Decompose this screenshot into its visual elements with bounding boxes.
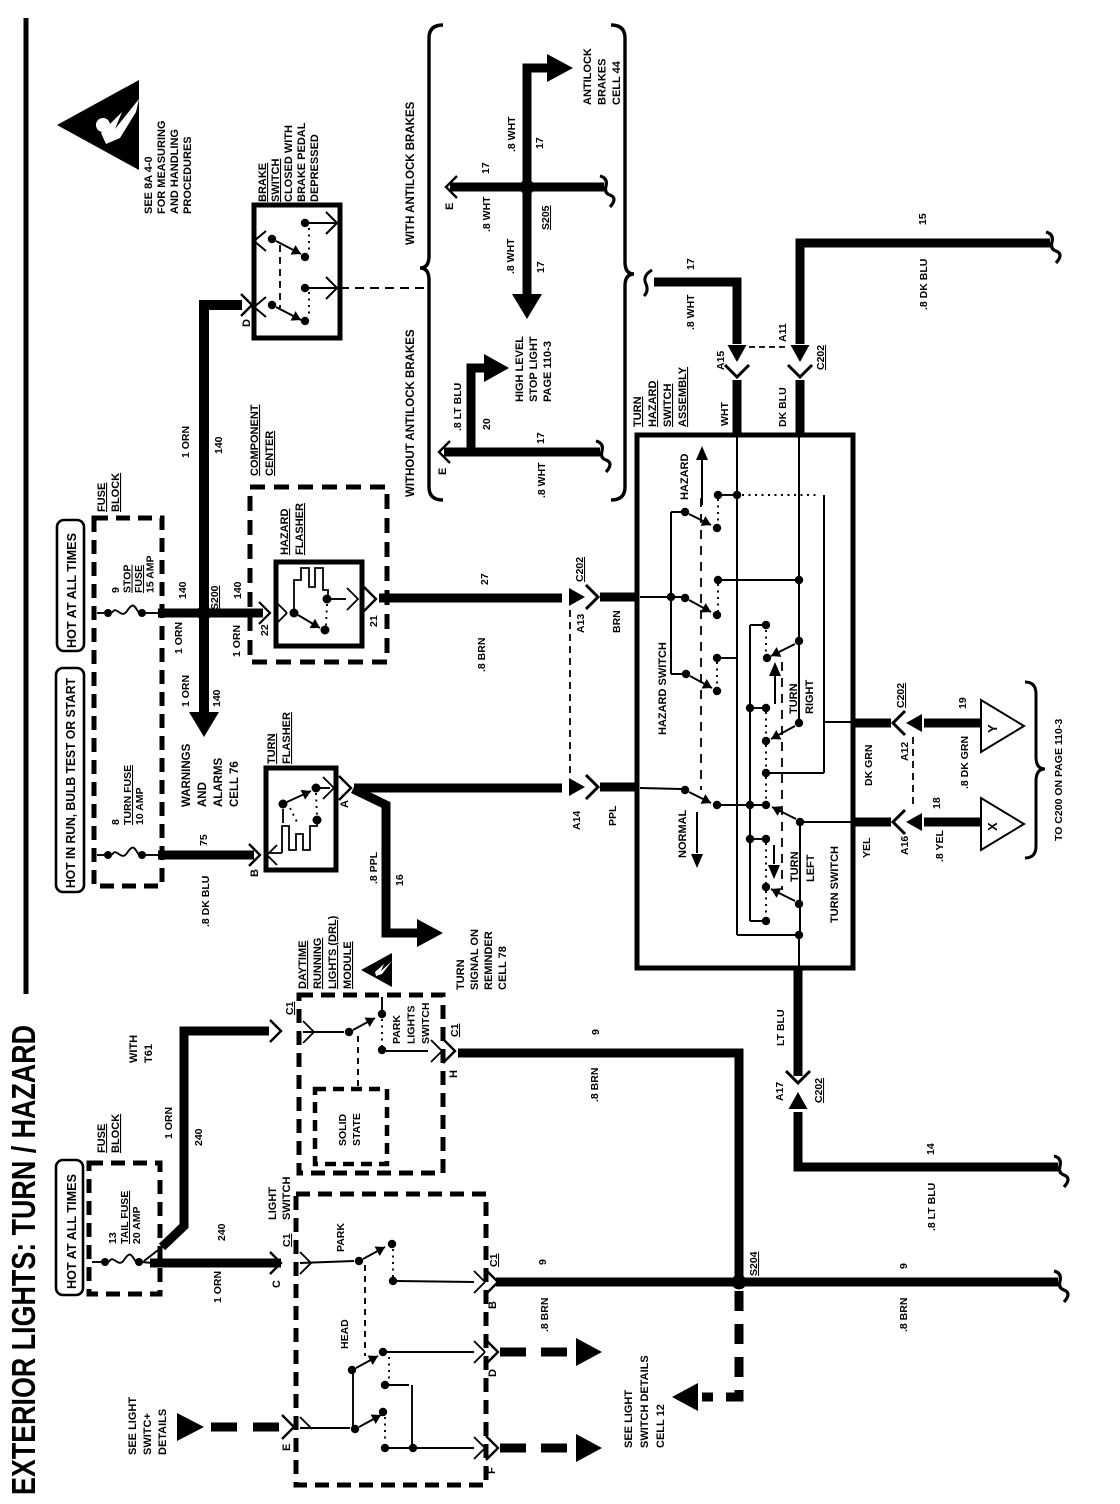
svg-text:.8 DK BLU: .8 DK BLU [200,876,212,927]
hazard feed line [742,494,820,496]
svg-text:TO C200 ON PAGE 110-3: TO C200 ON PAGE 110-3 [1053,719,1065,841]
brace right [611,25,634,500]
svg-text:.8 DK BLU: .8 DK BLU [918,259,930,310]
brace TO C200 [1025,682,1045,858]
svg-text:.8 BRN: .8 BRN [476,638,488,672]
svg-text:16: 16 [394,874,406,886]
svg-text:.8 LT BLU: .8 LT BLU [926,1183,938,1231]
WHT line inside [736,437,738,935]
svg-text:22: 22 [259,624,271,636]
blade DK BLU to 741 [795,719,803,727]
fuse block dashed box lower [89,1163,160,1294]
svg-text:S205: S205 [540,205,552,230]
turn contact column dots [762,621,770,629]
YEL stub [800,821,853,823]
svg-text:A: A [339,800,351,808]
pin B [474,1271,485,1282]
wire 1 ORN main [199,613,209,712]
connector C202 dashed A15-A11 [749,346,787,348]
svg-text:240: 240 [216,1223,228,1241]
wire 1 ORN 240 to light switch [142,1262,152,1263]
hazard switch bus [670,512,672,674]
svg-text:75: 75 [198,834,210,846]
svg-text:1 ORN: 1 ORN [163,1107,175,1139]
wire .8 WHT to antilock brakes [527,68,547,183]
svg-text:1 ORN: 1 ORN [231,625,243,657]
turn-right blade from DK BLU [795,637,803,645]
svg-text:B: B [249,869,261,877]
turn hazard switch assembly box [637,435,853,968]
triangle Y [981,700,1024,752]
svg-text:.8 PPL: .8 PPL [368,851,380,884]
SOLID STATE box [315,1089,387,1164]
pin E light switch [282,1415,294,1439]
svg-text:27: 27 [479,573,491,585]
DK BLU line inside [798,437,800,723]
wire .8 BRN 27 to A13 [379,594,562,603]
svg-text:A13: A13 [575,614,587,633]
svg-text:HAZARD: HAZARD [679,454,691,500]
svg-text:.8 WHT: .8 WHT [685,294,697,330]
wire stop fuse to S200 [158,609,204,618]
dashed wire to pin E [211,1423,292,1432]
turn fuse symbol [97,854,104,856]
dashed wire to cell 12 [702,1291,739,1397]
wire D line [387,1351,474,1353]
svg-text:HEAD: HEAD [339,1319,351,1349]
fuse block dashed box [94,518,162,886]
DRL park switch [303,1021,314,1032]
wire .8 PPL branch to reminder [353,789,418,933]
svg-text:17: 17 [534,137,546,149]
svg-text:HAZARD SWITCH: HAZARD SWITCH [657,642,669,735]
svg-text:1 ORN: 1 ORN [173,622,185,654]
wire 1 ORN to brake switch [204,305,242,613]
hazard flasher box [276,562,362,646]
svg-text:BRN: BRN [611,610,623,633]
svg-text:PARK: PARK [335,1223,347,1252]
connector A13 C202 [569,588,585,606]
wire .8 WHT to A15 [644,270,652,296]
wire A11 DK BLU [791,345,810,362]
svg-text:DK BLU: DK BLU [777,387,789,427]
brake switch upper contact [301,219,309,227]
park contact [300,1252,311,1263]
svg-text:C202: C202 [895,683,907,708]
turn linkage dashed [781,662,783,890]
wire 240 ORN to DRL [162,1031,269,1247]
svg-text:NORMAL: NORMAL [677,809,689,858]
svg-text:PPL: PPL [607,805,619,826]
wire LT BLU to A17 [794,966,803,1076]
svg-text:240: 240 [193,1128,205,1146]
svg-text:WITHOUT ANTILOCK BRAKES: WITHOUT ANTILOCK BRAKES [405,329,417,497]
svg-text:19: 19 [957,697,969,709]
svg-text:C202: C202 [574,557,586,582]
svg-text:.8 WHT: .8 WHT [506,116,518,152]
svg-text:140: 140 [232,581,244,599]
connector C202 dashed A13-A14 [569,610,571,777]
splice S200 [197,606,212,621]
DRL module dashed box [299,995,443,1173]
head contact [300,1427,350,1429]
svg-text:140: 140 [177,581,189,599]
svg-text:.8 BRN: .8 BRN [898,1298,910,1332]
svg-text:140: 140 [213,436,225,454]
svg-text:C202: C202 [813,1078,825,1103]
svg-text:X: X [985,822,1000,831]
svg-text:B: B [487,1301,499,1309]
wire .8 DK BLU 75 to turn flasher [158,851,254,860]
svg-text:WHT: WHT [719,402,731,426]
brake switch output dashed wire [340,287,424,289]
pin 21 [331,598,346,600]
wire .8 BRN 9 from B to S204 [496,1278,1058,1287]
pin A [320,787,330,789]
svg-text:E: E [281,1444,293,1451]
svg-text:A17: A17 [774,1082,786,1101]
A14 contact [640,788,681,789]
svg-text:C1: C1 [488,1253,500,1267]
pin E with-antilock [446,176,457,198]
small ESD symbol [361,953,392,987]
svg-text:LT BLU: LT BLU [775,1009,787,1046]
svg-text:C1: C1 [449,1023,461,1037]
wire .8 WHT E [444,448,600,457]
svg-text:9: 9 [898,1263,910,1269]
wire S200 to hazard flasher [204,609,263,618]
blade YEL to 805 [796,818,804,826]
svg-text:C1: C1 [284,1001,296,1015]
svg-text:17: 17 [480,162,492,174]
svg-text:14: 14 [925,1143,937,1155]
svg-text:21: 21 [368,615,380,627]
turn switch right-bus [749,625,751,921]
wire .8 DK BLU 15 [800,243,1050,344]
svg-text:A15: A15 [715,351,727,370]
component center dashed box [250,487,387,662]
wire .8 WHT E to S205 [450,183,604,192]
pin E without-antilock [439,441,450,463]
svg-text:1 ORN: 1 ORN [180,675,192,707]
svg-text:A14: A14 [571,811,583,830]
svg-text:YEL: YEL [861,837,873,858]
turn flasher box [266,768,336,870]
svg-text:HOT IN RUN, BULB TEST OR STAR: HOT IN RUN, BULB TEST OR START [64,678,78,888]
svg-text:C202: C202 [815,345,827,370]
svg-text:.8 BRN: .8 BRN [589,1068,601,1102]
svg-text:20: 20 [481,418,493,430]
pin B [249,844,260,866]
pin F [474,1437,485,1448]
wire D dashed out [500,1348,576,1357]
title rule [24,18,29,994]
wire .8 WHT down to high level stop [523,191,532,295]
ESD warning symbol [57,80,139,170]
svg-text:.8 WHT: .8 WHT [536,462,548,498]
svg-text:.8 YEL: .8 YEL [934,830,946,862]
svg-text:S204: S204 [748,1251,760,1276]
svg-text:E: E [437,468,449,475]
splice S205 [520,180,535,195]
svg-text:DK GRN: DK GRN [863,745,875,786]
svg-text:140: 140 [211,689,223,707]
DK GRN exit line [824,721,853,723]
svg-text:HOT AT ALL TIMES: HOT AT ALL TIMES [65,1174,79,1289]
svg-text:D: D [487,1369,499,1377]
svg-text:17: 17 [535,261,547,273]
turn dotted links [765,630,767,653]
svg-text:WITH ANTILOCK BRAKES: WITH ANTILOCK BRAKES [405,101,417,245]
pin D [474,1341,485,1352]
svg-text:C: C [271,1280,283,1288]
HOT AT ALL TIMES box [57,520,84,651]
pin 22 [259,602,270,624]
svg-text:H: H [448,1070,460,1078]
hazard flasher element [290,609,299,618]
svg-text:.8 DK GRN: .8 DK GRN [959,736,971,789]
svg-text:9: 9 [590,1029,602,1035]
hazard linkage dashed [700,498,702,790]
svg-text:1 ORN: 1 ORN [180,426,192,458]
svg-text:C1: C1 [281,1233,293,1247]
svg-text:A12: A12 [899,742,911,761]
HOT AT ALL TIMES box lower [56,1160,83,1295]
wire YEL to A16 [853,818,891,827]
svg-text:HIGH LEVEL STOP LIGHT PAGE 110: HIGH LEVEL STOP LIGHT PAGE 110-3 [514,333,554,402]
wire .8 BRN 9 from H [458,1053,739,1282]
svg-text:9: 9 [537,1259,549,1265]
hazard contact 3 [682,670,690,678]
svg-text:TURN SWITCH: TURN SWITCH [829,846,841,923]
svg-text:D: D [241,319,253,327]
pin D [241,294,252,316]
svg-text:E: E [444,203,456,210]
wire .8 PPL to A14 [354,784,562,793]
svg-text:A11: A11 [777,323,789,342]
pin C light switch [270,1252,281,1274]
svg-text:1 ORN: 1 ORN [212,1271,224,1303]
svg-text:15: 15 [917,213,929,225]
svg-text:17: 17 [535,432,547,444]
pin C1 DRL [270,1020,281,1042]
svg-text:18: 18 [931,797,943,809]
brake switch lower contact [301,284,309,292]
svg-text:.8 BRN: .8 BRN [539,1298,551,1332]
svg-text:.8 WHT: .8 WHT [505,238,517,274]
wire F dashed out [500,1444,576,1453]
hazard contact 1 [681,508,689,516]
svg-text:F: F [486,1467,498,1474]
svg-text:S200: S200 [209,585,221,610]
svg-text:EXTERIOR LIGHTS: TURN / HAZARD: EXTERIOR LIGHTS: TURN / HAZARD [6,1025,43,1495]
svg-text:HOT AT ALL TIMES: HOT AT ALL TIMES [65,533,79,648]
HOT IN RUN BULB TEST OR START box [56,668,84,892]
svg-text:.8 WHT: .8 WHT [481,196,493,232]
pin H [431,1040,442,1051]
wire DK GRN to A12 [853,719,891,728]
brake switch linkage [279,245,281,308]
hazard contact 2 [640,596,682,598]
svg-text:.8 LT BLU: .8 LT BLU [452,383,464,431]
wire .8 LT BLU branch [471,368,484,456]
connector A14 C202 [569,778,585,796]
triangle X [981,798,1024,850]
arrow to E [177,1413,204,1441]
light switch dashed box [296,1194,486,1485]
svg-text:A16: A16 [899,836,911,855]
svg-text:Y: Y [985,724,1000,733]
brake switch box [254,205,340,338]
tail fuse symbol [92,1261,101,1263]
stop fuse symbol [97,612,104,614]
connector C202 dashed A12-A16 [912,737,914,808]
svg-text:17: 17 [685,258,697,270]
brace left [420,25,443,500]
turn flasher element [268,852,282,854]
splice S204 [732,1275,747,1290]
